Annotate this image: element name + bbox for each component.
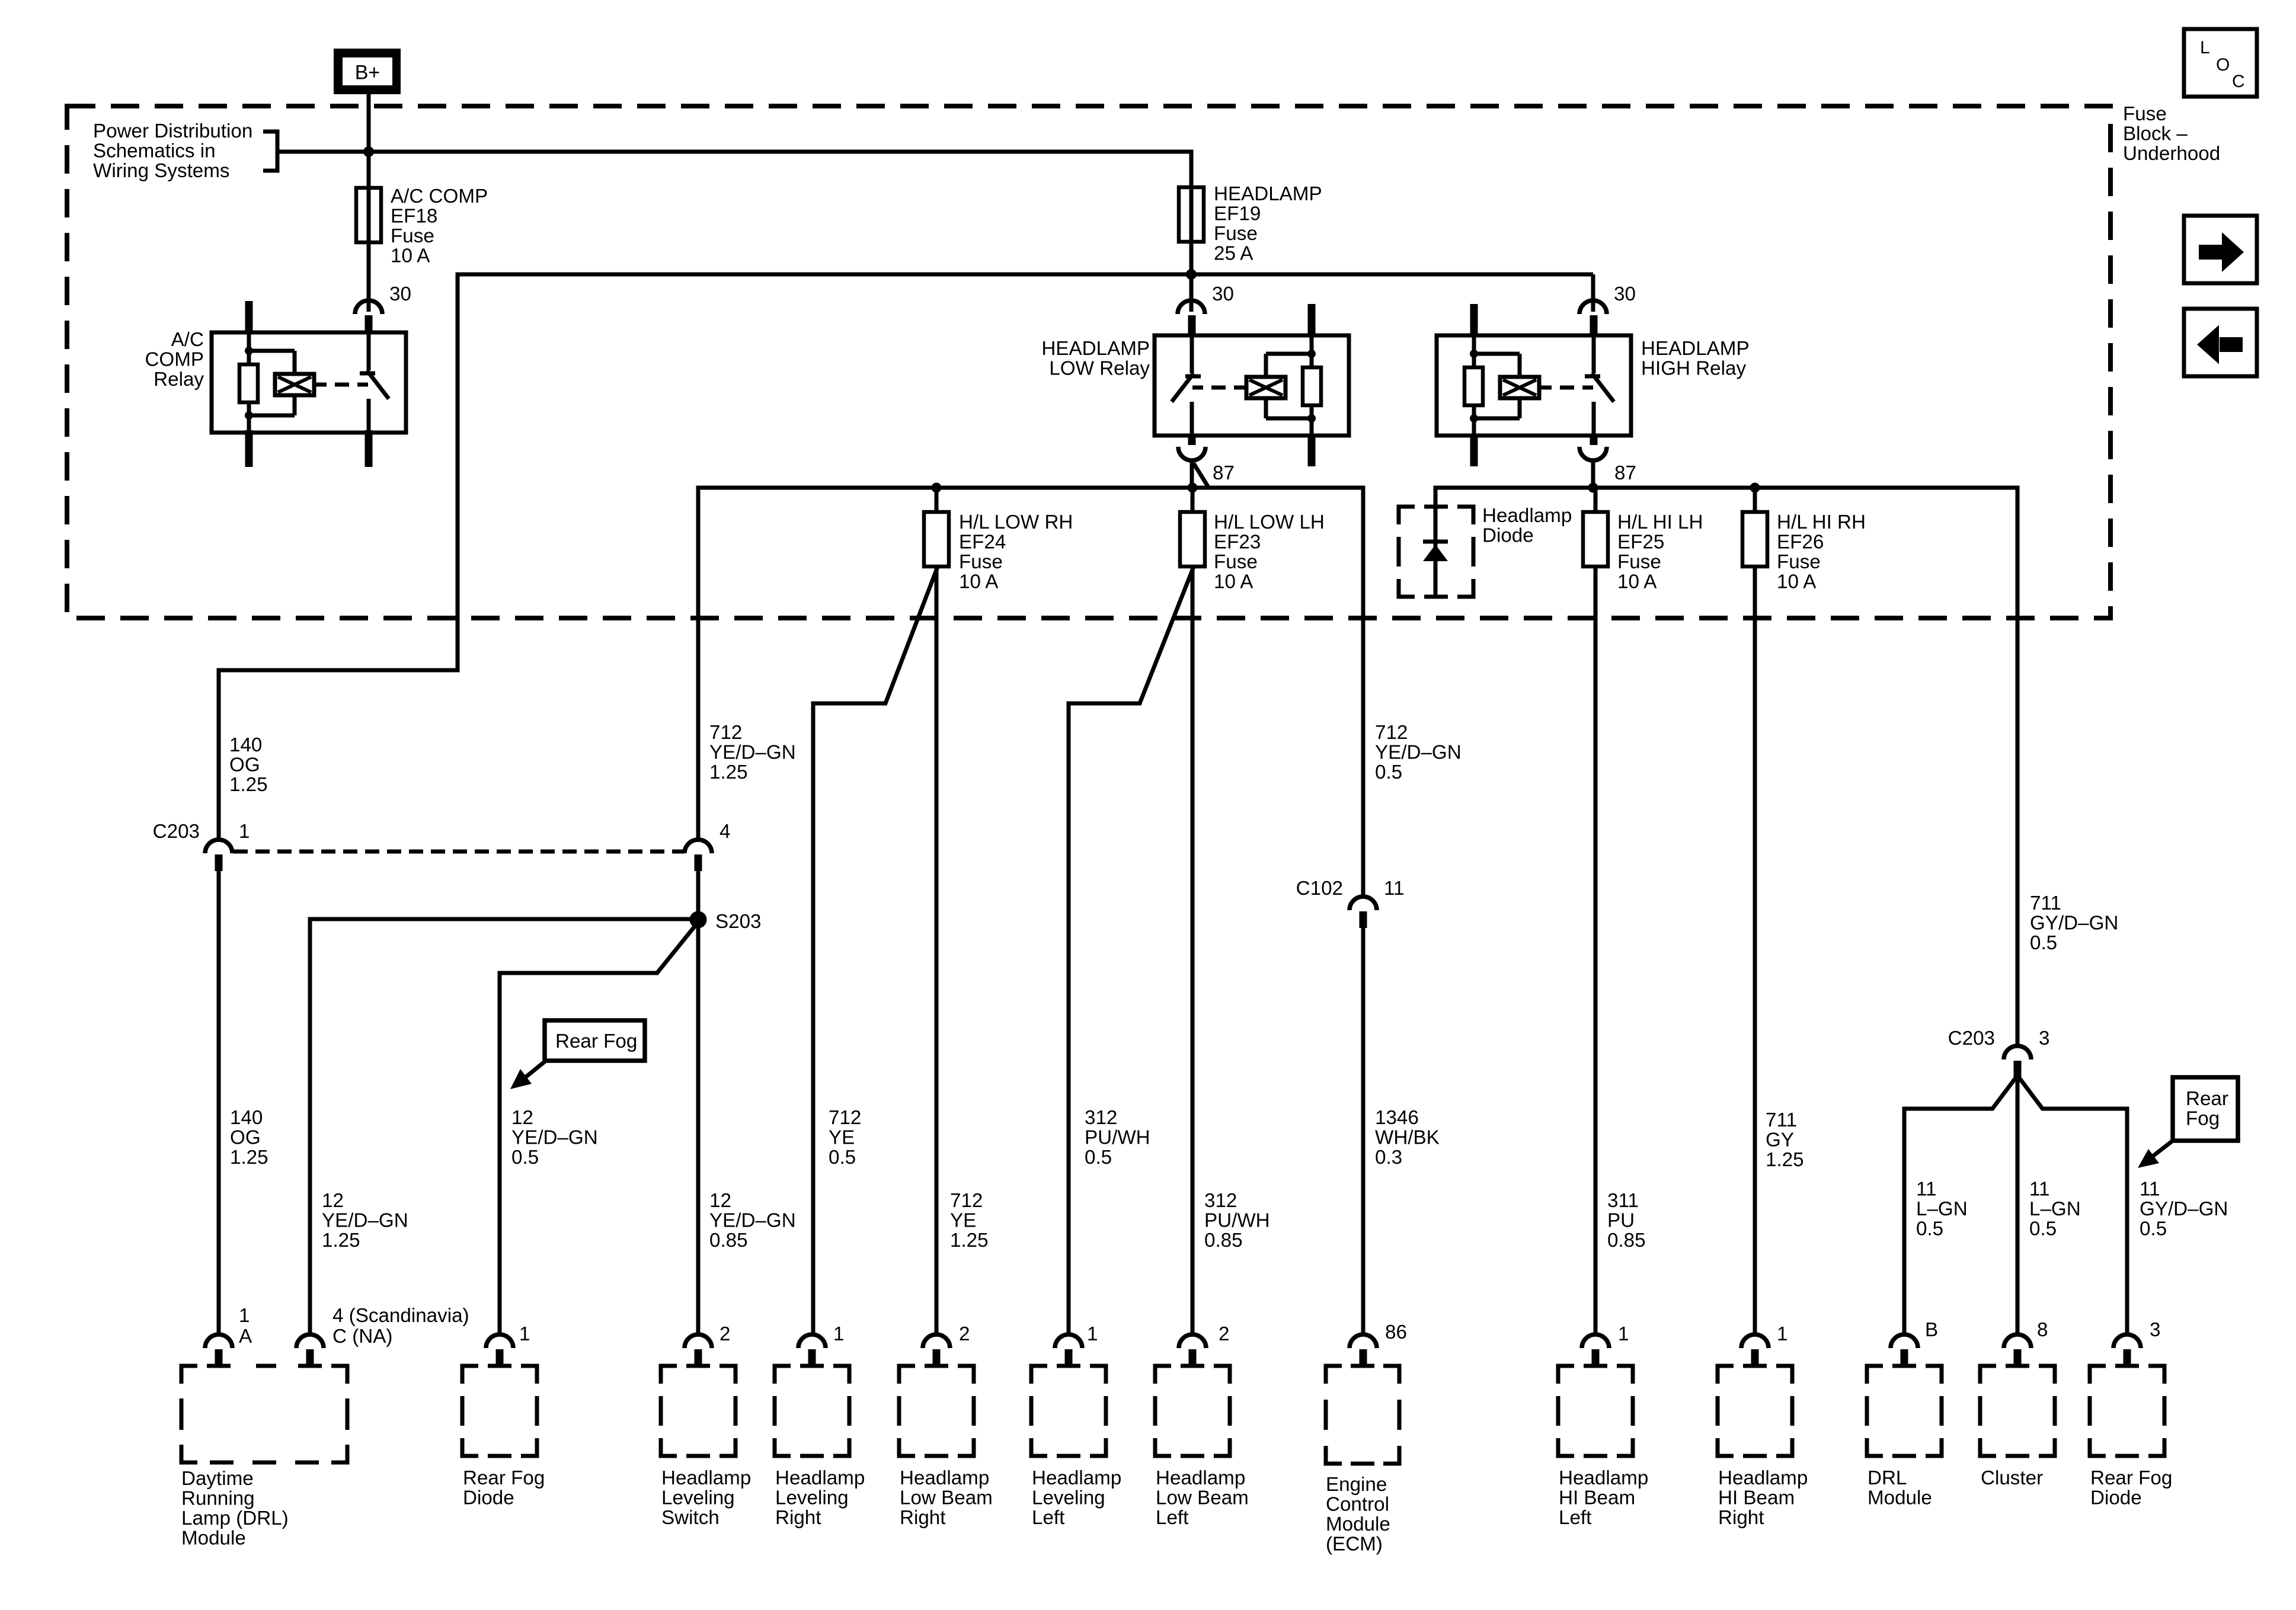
svg-text:8: 8 (2037, 1319, 2048, 1341)
svg-text:C203: C203 (1948, 1028, 1995, 1049)
svg-text:Diode: Diode (463, 1487, 514, 1509)
svg-text:C203: C203 (153, 821, 200, 843)
wire label 12 YE/D-GN 0.5 (511, 1107, 598, 1169)
arrow next page (right) (2184, 216, 2257, 283)
wire 1346 WH/BK to ECM (1361, 928, 1366, 1334)
connector pin 30 LOW relay (1178, 274, 1205, 314)
connector leveling left pin 1 (1055, 1334, 1082, 1366)
label Rear Fog Diode (463, 1467, 545, 1509)
connector pin 30 A/C COMP relay (355, 300, 382, 334)
pin label 1 (C203) (239, 821, 250, 843)
label relay HEADLAMP LOW (1041, 338, 1150, 380)
pin label 1 / A (DRL) (239, 1305, 252, 1347)
svg-text:Rear Fog: Rear Fog (463, 1467, 545, 1489)
svg-text:0.85: 0.85 (1607, 1230, 1646, 1251)
svg-text:Headlamp: Headlamp (661, 1467, 751, 1489)
svg-text:0.5: 0.5 (511, 1147, 539, 1169)
svg-text:2: 2 (720, 1323, 730, 1345)
label headlamp diode (1482, 505, 1572, 547)
connector pin 30 HIGH relay (1579, 300, 1607, 314)
label Headlamp HI Beam Left (1559, 1467, 1648, 1529)
svg-text:C102: C102 (1296, 878, 1343, 900)
wire B+ drop to EF18 (367, 94, 371, 188)
svg-text:YE/D–GN: YE/D–GN (709, 742, 796, 764)
splice S203 (690, 911, 707, 929)
svg-text:YE/D–GN: YE/D–GN (1375, 742, 1462, 764)
svg-text:1: 1 (239, 821, 250, 843)
svg-text:712: 712 (950, 1190, 983, 1212)
wire bus4 left drop to diode (1434, 486, 1438, 596)
svg-text:11: 11 (1916, 1179, 1936, 1201)
label fuse EF18 (391, 185, 488, 267)
module box Cluster (1980, 1366, 2055, 1456)
wire label 711 GY 1.25 (1766, 1109, 1804, 1171)
svg-text:12: 12 (511, 1107, 533, 1129)
svg-text:COMP: COMP (145, 349, 204, 371)
pin label 4 (Scandinavia) / C (NA) (332, 1305, 469, 1347)
svg-text:GY: GY (1766, 1129, 1794, 1151)
fuse EF23 H/L LOW LH (1180, 488, 1205, 1334)
svg-text:(ECM): (ECM) (1326, 1534, 1383, 1555)
svg-text:140: 140 (229, 734, 262, 756)
pin label B (DRL module) (1925, 1319, 1938, 1341)
svg-text:Headlamp: Headlamp (1718, 1467, 1808, 1489)
svg-text:Leveling: Leveling (661, 1487, 735, 1509)
svg-text:1: 1 (1618, 1323, 1629, 1345)
svg-text:GY/D–GN: GY/D–GN (2030, 913, 2118, 934)
node junction bus4 / EF26 (1750, 483, 1760, 493)
svg-text:Relay: Relay (154, 369, 204, 391)
module box Rear Fog Diode (right) (2090, 1366, 2164, 1456)
node junction bus3 / EF23 (1188, 483, 1198, 493)
svg-text:DRL: DRL (1868, 1467, 1907, 1489)
svg-text:311: 311 (1607, 1190, 1639, 1212)
label fuse EF19 (1214, 183, 1322, 265)
svg-text:Diode: Diode (2090, 1487, 2142, 1509)
module box Daytime Running Lamp (DRL) (181, 1366, 347, 1462)
svg-text:GY/D–GN: GY/D–GN (2140, 1198, 2228, 1220)
svg-text:140: 140 (230, 1107, 263, 1129)
module box Headlamp Low Beam Right (899, 1366, 974, 1456)
svg-text:Block –: Block – (2123, 123, 2188, 145)
svg-text:YE/D–GN: YE/D–GN (709, 1210, 796, 1232)
wire bus1 B+ feed horizontal (277, 150, 1191, 188)
svg-text:Fuse: Fuse (959, 551, 1003, 573)
label fuse EF26 (1777, 511, 1866, 593)
svg-text:1.25: 1.25 (709, 761, 748, 783)
svg-text:Low Beam: Low Beam (1156, 1487, 1249, 1509)
svg-text:Fuse: Fuse (1214, 223, 1258, 245)
wire C203-4 to S203 (696, 871, 701, 1334)
pin label 2 (leveling switch) (720, 1323, 730, 1345)
svg-text:EF18: EF18 (391, 206, 437, 228)
wire bus3 left drop C203-4 (696, 486, 701, 841)
svg-text:1: 1 (239, 1305, 250, 1327)
wire bus4 HIGH relay output (1435, 460, 2017, 488)
connector hi beam right pin 1 (1741, 1334, 1769, 1366)
svg-text:LOW Relay: LOW Relay (1049, 358, 1150, 380)
svg-text:30: 30 (1212, 283, 1234, 305)
fuse EF18 A/C COMP (356, 152, 381, 312)
label fuse EF23 (1214, 511, 1325, 593)
wire label 11 L-GN 0.5 (DRL) (1916, 1179, 1968, 1240)
wire label 1346 WH/BK 0.3 (1375, 1107, 1440, 1169)
svg-text:EF26: EF26 (1777, 532, 1824, 553)
label C203 (153, 821, 200, 843)
pin label 87 (HIGH relay) (1614, 462, 1636, 484)
svg-text:Fuse: Fuse (1617, 551, 1661, 573)
wire 87 diagonal to bus3 (1194, 463, 1209, 488)
relay HEADLAMP HIGH (1437, 304, 1631, 466)
connector rear fog diode2 pin 3 (2113, 1334, 2141, 1366)
svg-text:HIGH Relay: HIGH Relay (1641, 358, 1746, 380)
pin label 4 (C203) (720, 821, 730, 843)
svg-text:Wiring Systems: Wiring Systems (93, 160, 230, 182)
svg-text:86: 86 (1385, 1321, 1407, 1343)
svg-text:1.25: 1.25 (229, 774, 268, 796)
svg-text:1.25: 1.25 (230, 1147, 268, 1169)
svg-text:12: 12 (709, 1190, 731, 1212)
connector ECM pin 86 (1350, 1334, 1377, 1366)
svg-text:0.5: 0.5 (1375, 761, 1402, 783)
svg-text:Cluster: Cluster (1981, 1467, 2043, 1489)
svg-text:H/L HI RH: H/L HI RH (1777, 511, 1866, 533)
svg-text:Left: Left (1032, 1507, 1064, 1529)
svg-text:10 A: 10 A (959, 571, 999, 593)
svg-text:WH/BK: WH/BK (1375, 1127, 1440, 1149)
svg-text:C: C (2232, 72, 2245, 91)
svg-text:O: O (2216, 55, 2230, 75)
relay HEADLAMP LOW (1155, 304, 1349, 466)
fuse EF19 HEADLAMP (1179, 150, 1204, 275)
pin label 1 (leveling right) (833, 1323, 844, 1345)
connector C203 pin 1 (205, 840, 232, 871)
label relay A/C COMP (145, 329, 204, 391)
svg-text:HI Beam: HI Beam (1718, 1487, 1795, 1509)
svg-text:L–GN: L–GN (1916, 1198, 1968, 1220)
svg-text:4 (Scandinavia): 4 (Scandinavia) (332, 1305, 469, 1327)
svg-text:1346: 1346 (1375, 1107, 1419, 1129)
pin label 1 (rear fog diode) (519, 1323, 530, 1345)
node junction bus3 / EF24 (932, 483, 942, 493)
wire label 312 PU/WH 0.5 (1085, 1107, 1150, 1169)
svg-text:0.5: 0.5 (829, 1147, 856, 1169)
label DRL Module (1868, 1467, 1932, 1509)
pin label 1 (leveling left) (1087, 1323, 1098, 1345)
connector low beam right pin 2 (923, 1334, 950, 1366)
svg-text:1: 1 (1087, 1323, 1098, 1345)
svg-text:Headlamp: Headlamp (1156, 1467, 1245, 1489)
svg-text:S203: S203 (715, 911, 762, 933)
pin label 30 (HIGH relay) (1614, 283, 1636, 305)
svg-text:312: 312 (1085, 1107, 1117, 1129)
pin label 87 (LOW relay) (1213, 462, 1235, 484)
svg-text:Fog: Fog (2186, 1108, 2220, 1130)
pin label 3 (rear fog diode2) (2150, 1319, 2160, 1341)
connector DRL pin A (205, 1334, 232, 1366)
wire C203-3 split to rear fog diode (2017, 1076, 2127, 1334)
module box Headlamp Leveling Right (775, 1366, 849, 1456)
wire bus2 EF19 output horizontal (456, 273, 1594, 671)
svg-text:87: 87 (1614, 462, 1636, 484)
svg-text:Rear: Rear (2186, 1088, 2228, 1110)
svg-text:B+: B+ (355, 62, 380, 84)
svg-text:Schematics in: Schematics in (93, 140, 216, 162)
connector DRL pin C (296, 1334, 324, 1366)
svg-text:Low Beam: Low Beam (900, 1487, 993, 1509)
svg-text:A/C: A/C (171, 329, 204, 351)
label fuse EF25 (1617, 511, 1703, 593)
module box Headlamp Leveling Switch (661, 1366, 736, 1456)
relay A/C COMP (212, 301, 406, 467)
connector DRL module pin B (1891, 1334, 1918, 1366)
module box Headlamp Leveling Left (1031, 1366, 1106, 1456)
svg-text:YE: YE (829, 1127, 855, 1149)
svg-text:PU/WH: PU/WH (1085, 1127, 1150, 1149)
wire 140 OG feed jog (219, 668, 460, 841)
svg-text:Fuse: Fuse (2123, 103, 2167, 125)
svg-text:Leveling: Leveling (1032, 1487, 1105, 1509)
label C203 (pin3) (1948, 1028, 1995, 1049)
wire label 312 PU/WH 0.85 (1204, 1190, 1270, 1251)
svg-text:L–GN: L–GN (2029, 1198, 2081, 1220)
svg-text:0.3: 0.3 (1375, 1147, 1402, 1169)
label DRL module (181, 1468, 289, 1550)
wire S203 to rear fog diode (500, 922, 698, 1334)
label ECM (1326, 1474, 1390, 1555)
svg-text:Diode: Diode (1482, 525, 1534, 547)
svg-text:EF23: EF23 (1214, 532, 1261, 553)
svg-text:Engine: Engine (1326, 1474, 1387, 1496)
wire label 11 GY/D-GN 0.5 (2140, 1179, 2228, 1240)
svg-text:0.5: 0.5 (1085, 1147, 1112, 1169)
svg-text:B: B (1925, 1319, 1938, 1341)
wire label 712 YE/D-GN 0.5 (1375, 722, 1462, 783)
svg-text:1: 1 (833, 1323, 844, 1345)
svg-text:Daytime: Daytime (181, 1468, 254, 1490)
connector C203 pin 4 (685, 840, 712, 871)
note bracket (263, 130, 277, 173)
pin label 30 (LOW relay) (1212, 283, 1234, 305)
pin label 8 (cluster) (2037, 1319, 2048, 1341)
node junction B+ / bus1 (363, 146, 374, 157)
svg-text:11: 11 (2029, 1179, 2049, 1201)
svg-text:Right: Right (900, 1507, 945, 1529)
label Headlamp HI Beam Right (1718, 1467, 1808, 1529)
svg-text:OG: OG (229, 754, 260, 776)
svg-text:3: 3 (2039, 1028, 2049, 1049)
connector hi beam left pin 1 (1582, 1334, 1609, 1366)
svg-text:A: A (239, 1326, 252, 1347)
connector C203 dashed link (234, 850, 684, 854)
svg-text:C (NA): C (NA) (332, 1326, 392, 1347)
arrow previous page (left) (2184, 309, 2257, 376)
label Headlamp Leveling Left (1032, 1467, 1121, 1529)
wire label 11 L-GN 0.5 (cluster) (2029, 1179, 2081, 1240)
label Fuse Block - Underhood (2123, 103, 2220, 165)
svg-text:A/C COMP: A/C COMP (391, 185, 488, 207)
wire bus3 right drop to C102 (1361, 486, 1366, 898)
svg-text:0.85: 0.85 (709, 1230, 748, 1251)
svg-text:87: 87 (1213, 462, 1235, 484)
connector leveling switch pin 2 (685, 1334, 712, 1366)
svg-text:HEADLAMP: HEADLAMP (1641, 338, 1750, 360)
svg-text:4: 4 (720, 821, 730, 843)
pin label 11 (C102) (1384, 878, 1404, 900)
svg-text:10 A: 10 A (391, 245, 430, 267)
pin label 1 (hi beam right) (1777, 1323, 1787, 1345)
svg-text:0.5: 0.5 (2030, 932, 2057, 954)
pin label 2 (low beam right) (959, 1323, 970, 1345)
B+ battery feed terminal (334, 49, 401, 94)
svg-text:12: 12 (322, 1190, 344, 1212)
wire label 12 YE/D-GN 0.85 (709, 1190, 796, 1251)
LOC reference box (2184, 29, 2257, 97)
svg-text:10 A: 10 A (1777, 571, 1817, 593)
svg-text:312: 312 (1204, 1190, 1237, 1212)
svg-text:Underhood: Underhood (2123, 143, 2220, 165)
svg-text:HEADLAMP: HEADLAMP (1041, 338, 1150, 360)
svg-text:PU: PU (1607, 1210, 1635, 1232)
connector rear fog diode pin 1 (486, 1334, 513, 1366)
callout Rear Fog (left) (510, 1020, 645, 1089)
headlamp diode dashed box (1399, 507, 1473, 597)
svg-text:L: L (2200, 38, 2210, 57)
label Cluster (1981, 1467, 2043, 1489)
svg-text:Headlamp: Headlamp (1559, 1467, 1648, 1489)
wire label 311 PU 0.85 (1607, 1190, 1646, 1251)
svg-text:HI Beam: HI Beam (1559, 1487, 1635, 1509)
pin label 2 (low beam left) (1219, 1323, 1229, 1345)
svg-text:712: 712 (1375, 722, 1408, 744)
svg-text:HEADLAMP: HEADLAMP (1214, 183, 1322, 205)
svg-text:Module: Module (1326, 1513, 1390, 1535)
wire label 140 OG 1.25 (lower) (230, 1107, 268, 1169)
svg-text:H/L LOW RH: H/L LOW RH (959, 511, 1073, 533)
svg-text:Fuse: Fuse (1777, 551, 1821, 573)
connector C102 pin 11 (1350, 897, 1377, 928)
wire label 12 YE/D-GN 1.25 (322, 1190, 408, 1251)
svg-text:Right: Right (775, 1507, 821, 1529)
svg-text:1: 1 (519, 1323, 530, 1345)
note Power Distribution Schematics in Wiring Systems (93, 120, 252, 182)
svg-text:2: 2 (1219, 1323, 1229, 1345)
wire C203-3 to cluster (2016, 1076, 2020, 1334)
label Headlamp Leveling Switch (661, 1467, 751, 1529)
connector leveling right pin 1 (798, 1334, 826, 1366)
svg-text:Lamp (DRL): Lamp (DRL) (181, 1507, 289, 1529)
svg-text:OG: OG (230, 1127, 261, 1149)
svg-text:Headlamp: Headlamp (900, 1467, 989, 1489)
wire label 140 OG 1.25 (upper) (229, 734, 268, 796)
wire label 711 GY/D-GN 0.5 (2030, 892, 2118, 954)
label Headlamp Low Beam Right (900, 1467, 993, 1529)
svg-text:3: 3 (2150, 1319, 2160, 1341)
svg-text:Module: Module (1868, 1487, 1932, 1509)
wire label 712 YE 0.5 (829, 1107, 861, 1169)
svg-text:10 A: 10 A (1214, 571, 1253, 593)
diode D1 headlamp diode (1423, 542, 1448, 561)
svg-text:30: 30 (389, 283, 411, 305)
svg-text:Power Distribution: Power Distribution (93, 120, 252, 142)
svg-text:712: 712 (829, 1107, 861, 1129)
pin label 1 (hi beam left) (1618, 1323, 1629, 1345)
svg-text:Headlamp: Headlamp (775, 1467, 865, 1489)
svg-text:PU/WH: PU/WH (1204, 1210, 1270, 1232)
svg-text:Rear Fog: Rear Fog (2090, 1467, 2172, 1489)
svg-text:Module: Module (181, 1528, 246, 1550)
connector C203 pin 3 (2004, 1046, 2031, 1077)
fuse EF25 H/L HI LH (1583, 488, 1608, 1334)
svg-text:Fuse: Fuse (391, 225, 434, 247)
module box Rear Fog Diode (462, 1366, 537, 1456)
wire bus4 right drop to C203-3 (2016, 486, 2020, 1046)
label Headlamp Low Beam Left (1156, 1467, 1249, 1529)
svg-text:11: 11 (1384, 878, 1404, 900)
svg-text:H/L HI LH: H/L HI LH (1617, 511, 1703, 533)
svg-text:Headlamp: Headlamp (1482, 505, 1572, 527)
svg-text:10 A: 10 A (1617, 571, 1657, 593)
wire label 712 YE/D-GN 1.25 (709, 722, 796, 783)
connector low beam left pin 2 (1179, 1334, 1206, 1366)
svg-text:Running: Running (181, 1488, 255, 1510)
label fuse EF24 (959, 511, 1073, 593)
module box DRL Module (1867, 1366, 1942, 1456)
svg-text:Left: Left (1559, 1507, 1591, 1529)
svg-text:30: 30 (1614, 283, 1636, 305)
svg-text:1.25: 1.25 (950, 1230, 989, 1251)
connector pin 87 HIGH relay (1579, 447, 1607, 460)
fuse EF26 H/L HI RH (1742, 488, 1767, 1334)
wire label 712 YE 1.25 (950, 1190, 989, 1251)
svg-text:25 A: 25 A (1214, 243, 1253, 265)
pin label 3 (C203) (2039, 1028, 2049, 1049)
module box Headlamp HI Beam Left (1558, 1366, 1633, 1456)
label C102 (1296, 878, 1343, 900)
wire EF23 branch to leveling left (1069, 565, 1194, 1334)
wire bus3 LOW relay output (698, 460, 1363, 488)
module box Engine Control Module (1326, 1366, 1399, 1464)
svg-text:Headlamp: Headlamp (1032, 1467, 1121, 1489)
fuse EF24 H/L LOW RH (924, 488, 949, 1334)
module box Headlamp HI Beam Right (1718, 1366, 1792, 1456)
svg-text:Rear Fog: Rear Fog (555, 1030, 637, 1052)
wire 140 OG to DRL module (217, 871, 221, 1334)
svg-text:711: 711 (1766, 1109, 1797, 1131)
svg-text:Leveling: Leveling (775, 1487, 849, 1509)
svg-text:EF19: EF19 (1214, 203, 1261, 225)
connector pin 87 LOW relay (1178, 447, 1205, 460)
label Headlamp Leveling Right (775, 1467, 865, 1529)
node junction bus4 / 87 (1588, 483, 1598, 493)
svg-text:Switch: Switch (661, 1507, 720, 1529)
svg-text:0.85: 0.85 (1204, 1230, 1243, 1251)
wire C203-3 split to DRL module (1904, 1076, 2017, 1334)
module box Headlamp Low Beam Left (1155, 1366, 1230, 1456)
wire S203 to DRL pin C (310, 917, 698, 1335)
svg-text:Right: Right (1718, 1507, 1764, 1529)
pin label 86 (ECM) (1385, 1321, 1407, 1343)
svg-text:H/L LOW LH: H/L LOW LH (1214, 511, 1325, 533)
svg-text:YE: YE (950, 1210, 976, 1232)
label relay HEADLAMP HIGH (1641, 338, 1750, 380)
svg-text:Left: Left (1156, 1507, 1188, 1529)
svg-text:Fuse: Fuse (1214, 551, 1258, 573)
svg-text:2: 2 (959, 1323, 970, 1345)
node junction EF19 / bus2 (1186, 269, 1197, 280)
label Rear Fog Diode (right) (2090, 1467, 2172, 1509)
svg-text:1.25: 1.25 (1766, 1149, 1804, 1171)
